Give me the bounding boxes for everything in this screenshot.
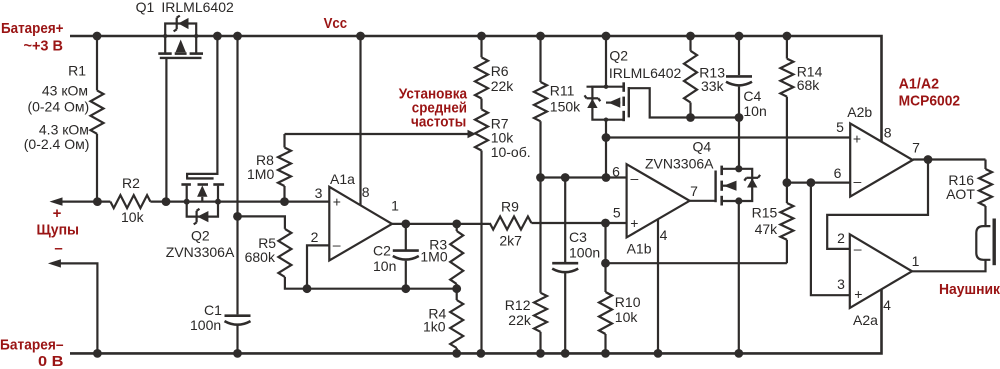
svg-text:Наушник: Наушник <box>939 281 1000 298</box>
svg-text:+: + <box>53 205 62 222</box>
resistor R13 <box>684 36 697 118</box>
probe - label <box>54 240 62 257</box>
resistor R9 labels <box>499 198 522 248</box>
svg-text:10n: 10n <box>373 258 396 274</box>
svg-text:Q4: Q4 <box>693 139 712 155</box>
svg-text:43 кОм: 43 кОм <box>42 83 88 99</box>
svg-text:6: 6 <box>612 164 620 180</box>
label A1a pin 1 <box>391 198 399 214</box>
node Vcc label <box>324 15 348 32</box>
junction R8/node <box>280 197 289 206</box>
svg-text:R12: R12 <box>505 297 531 313</box>
junction R12/rail <box>536 349 545 358</box>
svg-text:~+3 В: ~+3 В <box>24 37 64 54</box>
svg-text:5: 5 <box>836 119 844 135</box>
label A1b designator <box>627 241 652 257</box>
svg-text:1: 1 <box>912 253 920 269</box>
junction R10/rail <box>601 349 610 358</box>
resistor R14 <box>780 36 793 183</box>
label A2b designator <box>847 104 872 120</box>
resistor R15 labels <box>752 205 779 238</box>
capacitor C4 <box>726 36 752 169</box>
transistor Q1 <box>158 16 203 202</box>
transistor Q2 IRLML6402 <box>585 36 629 178</box>
svg-text:A1b: A1b <box>627 241 652 257</box>
svg-text:AOT: AOT <box>946 186 975 202</box>
wire A1b output <box>690 200 716 202</box>
node A1/A2 label <box>899 75 961 109</box>
resistor R3 <box>450 224 463 289</box>
svg-text:C1: C1 <box>204 302 222 318</box>
wire R7 wiper <box>285 130 477 138</box>
resistor R4 labels <box>423 306 447 335</box>
label A1a pin 3 <box>315 185 323 201</box>
wire Vcc top rail <box>70 36 882 142</box>
junction Vcc/Q2 <box>602 32 611 41</box>
junction branch/R15 line <box>601 259 610 268</box>
label A1a pin 2 <box>311 229 319 245</box>
svg-text:10-об.: 10-об. <box>491 144 531 160</box>
resistor R5 labels <box>245 235 277 265</box>
node Battery- label <box>0 337 64 369</box>
junction Vcc/R13 <box>686 32 695 41</box>
resistor R3 labels <box>420 237 447 265</box>
node Battery+ label <box>1 20 64 54</box>
label A2a pin 1 <box>912 253 920 269</box>
junction Vcc/R14 <box>783 32 792 41</box>
label A2a pin 3 <box>837 276 845 292</box>
svg-text:10k: 10k <box>615 309 639 325</box>
resistor R2 <box>110 195 329 208</box>
junction probe+/R1 <box>93 197 102 206</box>
capacitor C3 <box>552 178 578 354</box>
wire A1b pin6 <box>541 176 627 178</box>
svg-text:6: 6 <box>834 165 842 181</box>
label A2b pin 7 <box>912 140 920 156</box>
junction C1/rail <box>233 349 242 358</box>
svg-text:R9: R9 <box>501 198 519 214</box>
junction A2b out <box>924 155 933 164</box>
svg-text:A2a: A2a <box>853 312 878 328</box>
resistor R4 <box>450 289 463 354</box>
svg-text:8: 8 <box>362 184 370 200</box>
svg-text:Щупы: Щупы <box>37 222 80 239</box>
svg-text:2: 2 <box>311 229 319 245</box>
op-amp A2b <box>850 123 913 196</box>
svg-text:–: – <box>854 241 862 257</box>
resistor R16 labels <box>946 172 975 202</box>
probe + label <box>53 205 62 222</box>
op-amp A1a <box>329 187 392 261</box>
junction R3/feedback <box>452 284 461 293</box>
resistor R12 <box>534 293 547 354</box>
node headphone label <box>939 281 1000 298</box>
resistor R16 <box>979 160 992 227</box>
label A2b plus input <box>853 131 861 147</box>
svg-text:Батарея–: Батарея– <box>0 337 64 354</box>
resistor R7 potentiometer <box>475 99 488 354</box>
resistor R1 <box>91 36 104 202</box>
svg-text:(0-2.4 Ом): (0-2.4 Ом) <box>24 136 90 152</box>
svg-text:+: + <box>333 194 341 210</box>
resistor R5 <box>278 229 456 289</box>
svg-text:ZVN3306A: ZVN3306A <box>645 156 714 172</box>
capacitor C1 labels <box>190 302 222 333</box>
resistor R6 labels <box>491 63 515 94</box>
svg-text:R6: R6 <box>491 63 509 79</box>
resistor R13 labels <box>699 65 725 95</box>
junction Q4/rail <box>734 349 743 358</box>
resistor R8 labels <box>247 152 274 182</box>
junction Vcc/R11 <box>536 32 545 41</box>
svg-text:A1/A2: A1/A2 <box>899 75 940 92</box>
wire Q2 gate trace <box>629 88 739 117</box>
node frequency set label <box>399 85 468 130</box>
wire A1b pin4 <box>657 219 659 353</box>
transistor Q4 ZVN3306A <box>716 165 761 205</box>
wire ground bottom rail <box>70 289 882 353</box>
svg-text:10n: 10n <box>743 103 766 119</box>
capacitor C1 <box>225 316 251 325</box>
label A2b minus input <box>854 173 862 189</box>
junction probe-/rail <box>93 349 102 358</box>
svg-text:3: 3 <box>837 276 845 292</box>
resistor R1 labels <box>24 63 90 153</box>
op-amp A1b <box>627 164 690 237</box>
resistor R2 labels <box>121 175 145 225</box>
label A1a designator <box>330 171 355 187</box>
svg-text:7: 7 <box>912 140 920 156</box>
svg-text:C4: C4 <box>743 88 761 104</box>
svg-text:C3: C3 <box>569 229 587 245</box>
svg-text:5: 5 <box>613 204 621 220</box>
svg-text:2k7: 2k7 <box>499 233 522 249</box>
capacitor C3 labels <box>569 229 600 261</box>
label A2b pin 8 <box>884 124 892 140</box>
label A2a pin 4 <box>883 297 891 313</box>
junction pin2/feedback <box>303 284 312 293</box>
label A1b plus input <box>630 215 638 231</box>
resistor R10 labels <box>615 294 641 325</box>
junction C3/rail <box>561 349 570 358</box>
svg-text:R1: R1 <box>68 63 86 79</box>
label A1a pin 8 <box>362 184 370 200</box>
svg-text:R15: R15 <box>752 205 778 221</box>
svg-text:ZVN3306A: ZVN3306A <box>166 244 235 260</box>
svg-text:(0-24 Ом): (0-24 Ом) <box>27 98 89 114</box>
resistor R14 labels <box>797 64 823 94</box>
label Q2 value ZVN3306A <box>166 244 235 260</box>
label Q4 value ZVN3306A <box>645 156 714 172</box>
junction C2/feedback <box>401 284 410 293</box>
svg-text:100n: 100n <box>569 245 600 261</box>
svg-text:22k: 22k <box>508 312 532 328</box>
resistor R15 <box>780 183 793 264</box>
label Q4 designator <box>693 139 712 155</box>
svg-text:–: – <box>631 170 639 186</box>
svg-text:33k: 33k <box>701 78 725 94</box>
label Q1 value IRLML6402 <box>161 0 234 15</box>
wire A2a pin3 riser <box>811 183 850 296</box>
wire A1a pin2 loop <box>307 245 329 288</box>
label A2b pin 6 <box>834 165 842 181</box>
junction pin5/branch <box>601 219 610 228</box>
svg-text:–: – <box>333 237 341 253</box>
resistor R10 <box>599 292 612 353</box>
junction branch/R5 <box>233 212 242 221</box>
svg-text:7: 7 <box>690 183 698 199</box>
op-amp A2a <box>850 234 912 308</box>
svg-text:4: 4 <box>660 227 668 243</box>
wire A2b pin5 <box>606 136 850 138</box>
label A2a pin 2 <box>837 230 845 246</box>
resistor R12 labels <box>505 297 532 328</box>
svg-text:3: 3 <box>315 185 323 201</box>
junction out/R3 <box>452 220 461 229</box>
label A1b pin 5 <box>613 204 621 220</box>
headphone <box>976 219 994 266</box>
svg-text:47k: 47k <box>755 221 779 237</box>
svg-text:680k: 680k <box>245 249 276 265</box>
junction pin6/Q2 <box>602 173 611 182</box>
wire A1a output <box>392 223 490 225</box>
junction R14/R15/pin6 <box>783 178 792 187</box>
svg-text:A1a: A1a <box>330 171 355 187</box>
junction Q1 gate/node <box>162 197 171 206</box>
svg-text:C2: C2 <box>373 243 391 259</box>
label A1b pin 4 <box>660 227 668 243</box>
junction Vcc/C4 <box>735 32 744 41</box>
label A1b minus input <box>631 170 639 186</box>
svg-text:R11: R11 <box>550 83 575 99</box>
svg-text:150k: 150k <box>550 99 581 115</box>
svg-text:R10: R10 <box>615 294 641 310</box>
label A1a minus input <box>333 237 341 253</box>
svg-text:1k0: 1k0 <box>423 319 446 335</box>
svg-text:R2: R2 <box>122 175 140 191</box>
capacitor C4 labels <box>743 88 766 119</box>
capacitor C2 <box>393 224 419 289</box>
svg-text:10k: 10k <box>121 209 145 225</box>
svg-text:Q2: Q2 <box>191 228 210 244</box>
resistor R11 labels <box>550 83 581 115</box>
junction pin6/A2a pin3 riser <box>807 178 816 187</box>
svg-text:68k: 68k <box>797 77 821 93</box>
junction out/C2 <box>401 220 410 229</box>
svg-text:1: 1 <box>391 198 399 214</box>
label Q2 designator <box>191 228 210 244</box>
wire headphone to A2a out <box>912 260 986 272</box>
wire R5/C1 branch <box>236 36 238 353</box>
wire R5 top link <box>238 216 285 229</box>
svg-text:1M0: 1M0 <box>420 249 447 265</box>
resistor R11 <box>534 36 547 293</box>
node probes label <box>37 222 80 239</box>
junction pin6/C3 <box>561 173 570 182</box>
junction R4/rail <box>452 349 461 358</box>
svg-text:Q1: Q1 <box>136 0 155 15</box>
resistor R9 <box>490 217 627 230</box>
wire A2b output <box>913 158 986 160</box>
svg-text:Vcc: Vcc <box>324 15 348 32</box>
junction Vcc/R6 <box>477 32 486 41</box>
junction Vcc/pin8 <box>356 32 365 41</box>
label A2a plus input <box>854 286 862 302</box>
junction Vcc/R1 <box>93 32 102 41</box>
label Q1 designator <box>136 0 155 15</box>
junction C4/gate trace <box>735 113 744 122</box>
svg-text:4.3 кОм: 4.3 кОм <box>39 121 89 137</box>
wire R15 bottom line <box>606 262 787 264</box>
junction R7/rail <box>477 349 486 358</box>
resistor R8 <box>278 134 291 202</box>
resistor R7 labels <box>491 116 531 160</box>
wire A2a pin2 loop <box>827 160 928 249</box>
svg-text:частоты: частоты <box>411 114 466 131</box>
label Q2 value IRLML6402 <box>609 65 682 81</box>
svg-text:+: + <box>630 215 638 231</box>
junction pin4/rail <box>654 349 663 358</box>
svg-text:100n: 100n <box>190 317 221 333</box>
svg-text:1M0: 1M0 <box>247 166 274 182</box>
label A1a plus input <box>333 194 341 210</box>
capacitor C2 labels <box>373 243 396 275</box>
label A1b pin 7 <box>690 183 698 199</box>
svg-text:Q2: Q2 <box>609 48 628 64</box>
svg-text:A2b: A2b <box>847 104 872 120</box>
svg-text:–: – <box>54 240 62 257</box>
svg-text:4: 4 <box>883 297 891 313</box>
label Q2 designator <box>609 48 628 64</box>
label A2a minus input <box>854 241 862 257</box>
probe - arrow <box>48 259 98 353</box>
svg-text:IRLML6402: IRLML6402 <box>161 0 234 15</box>
junction Vcc/branch <box>233 32 242 41</box>
wire Q4 source down <box>738 201 740 353</box>
svg-text:IRLML6402: IRLML6402 <box>609 65 682 81</box>
svg-text:+: + <box>854 286 862 302</box>
svg-text:22k: 22k <box>491 78 515 94</box>
svg-text:Батарея+: Батарея+ <box>1 20 64 37</box>
junction R11/pin6line <box>536 173 545 182</box>
svg-text:0 В: 0 В <box>38 353 64 369</box>
junction Q2/pin5 <box>602 133 611 142</box>
junction R13/gate trace <box>686 113 695 122</box>
wire A1b pin5 branch <box>604 223 606 292</box>
junction Vcc/Q2 gate <box>213 32 222 41</box>
wire A2b pin6 <box>787 182 850 184</box>
svg-text:+: + <box>853 131 861 147</box>
svg-text:2: 2 <box>837 230 845 246</box>
probe + arrow <box>50 197 111 205</box>
svg-text:8: 8 <box>884 124 892 140</box>
svg-text:–: – <box>854 173 862 189</box>
label A2a designator <box>853 312 878 328</box>
label A2b pin 5 <box>836 119 844 135</box>
wire A1a pin8 <box>359 36 361 205</box>
transistor Q2 ZVN3306A <box>181 36 224 224</box>
label A1b pin 6 <box>612 164 620 180</box>
svg-text:MCP6002: MCP6002 <box>899 93 961 110</box>
resistor R6 <box>475 36 488 99</box>
